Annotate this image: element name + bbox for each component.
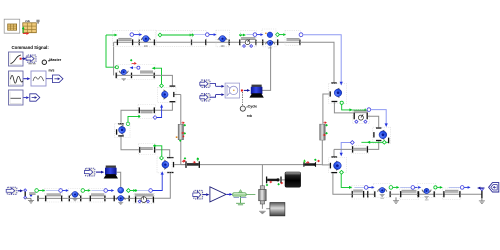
svg-text:rvb: rvb [247, 114, 252, 118]
svg-text:m/s: m/s [49, 69, 55, 73]
svg-text:Cycle: Cycle [248, 104, 258, 108]
svg-text:w: w [246, 107, 248, 109]
svg-text:w: w [48, 60, 50, 62]
svg-text:rvb: rvb [25, 19, 30, 23]
svg-text:Master: Master [49, 58, 61, 62]
svg-text:Command Signal:: Command Signal: [12, 45, 50, 50]
